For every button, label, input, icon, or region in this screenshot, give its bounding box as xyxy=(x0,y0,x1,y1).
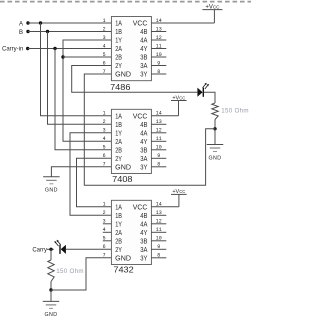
svg-text:11: 11 xyxy=(156,227,162,233)
wire U1 pin6 (SUM) to LED D1 xyxy=(72,66,198,93)
top dashed border xyxy=(0,1,251,3)
svg-text:4Y: 4Y xyxy=(140,46,147,53)
svg-text:10: 10 xyxy=(156,145,162,151)
svg-text:10: 10 xyxy=(156,236,162,242)
svg-text:4Y: 4Y xyxy=(140,139,147,146)
wire junction down to ground xyxy=(214,129,216,145)
svg-text:4A: 4A xyxy=(140,221,147,228)
svg-text:9: 9 xyxy=(157,60,160,66)
resistor R2 xyxy=(48,260,54,282)
svg-text:2B: 2B xyxy=(115,238,122,245)
svg-text:VCC: VCC xyxy=(133,113,148,120)
U1 right pin numbers 14-8 xyxy=(156,18,162,75)
junction A xyxy=(39,21,42,24)
svg-text:8: 8 xyxy=(157,253,160,259)
svg-text:3B: 3B xyxy=(140,147,147,154)
svg-text:12: 12 xyxy=(156,219,162,225)
junction R2/ground xyxy=(49,288,52,291)
U2 left pin numbers 1-7 xyxy=(103,111,106,168)
U3 right pin numbers 14-8 xyxy=(156,202,162,259)
wire A to U1 pin1 xyxy=(28,22,111,24)
wire B down to U2 pin2 xyxy=(48,32,112,125)
svg-text:GND: GND xyxy=(45,312,58,318)
svg-text:2: 2 xyxy=(103,210,106,216)
svg-text:B: B xyxy=(19,30,23,36)
wire U2 pin3 (1Y) to U3 pin2 xyxy=(70,133,111,216)
node B terminal xyxy=(26,30,29,33)
svg-text:14: 14 xyxy=(156,18,162,24)
U2 right pin stubs pins 13-8 xyxy=(151,124,166,167)
svg-text:7: 7 xyxy=(103,69,106,75)
junction Carry/resistor R2 xyxy=(49,248,52,251)
svg-text:5: 5 xyxy=(103,145,106,151)
wire Carry label to LED D2 xyxy=(47,248,54,250)
svg-text:7486: 7486 xyxy=(110,83,131,92)
svg-text:7432: 7432 xyxy=(113,266,134,275)
svg-text:3Y: 3Y xyxy=(140,255,147,262)
svg-text:1A: 1A xyxy=(115,113,122,120)
junction Carry-in xyxy=(53,47,56,50)
svg-text:3: 3 xyxy=(103,219,106,225)
svg-text:7: 7 xyxy=(103,162,106,168)
U3 right pin stubs pins 13-8 xyxy=(151,215,166,257)
svg-text:4B: 4B xyxy=(140,213,147,220)
svg-text:GND: GND xyxy=(45,188,58,194)
IC U3 7432 body xyxy=(111,200,151,264)
svg-text:Carry-in: Carry-in xyxy=(2,47,23,53)
U2 right pin numbers 14-8 xyxy=(156,111,162,168)
wire junction down to R2 xyxy=(50,249,52,260)
svg-text:GND: GND xyxy=(209,155,222,161)
svg-text:GND: GND xyxy=(115,72,131,79)
power +Vcc for U1 xyxy=(151,4,222,23)
svg-text:2B: 2B xyxy=(115,147,122,154)
svg-text:2Y: 2Y xyxy=(115,156,122,163)
svg-text:3A: 3A xyxy=(140,63,147,70)
svg-text:6: 6 xyxy=(103,153,106,159)
U1 left pin numbers 1-7 xyxy=(103,18,106,75)
svg-text:4: 4 xyxy=(103,136,106,142)
node A terminal xyxy=(26,21,29,24)
svg-text:8: 8 xyxy=(157,69,160,75)
svg-text:7: 7 xyxy=(103,253,106,259)
svg-text:12: 12 xyxy=(156,128,162,134)
svg-text:14: 14 xyxy=(156,202,162,208)
wire U2 pin7 GND to ground xyxy=(51,167,111,177)
svg-text:12: 12 xyxy=(156,35,162,41)
svg-text:1Y: 1Y xyxy=(115,38,122,45)
LED D2 (carry indicator) xyxy=(54,240,66,254)
ground symbol right xyxy=(207,145,224,162)
svg-text:4B: 4B xyxy=(140,122,147,129)
wire U2 pin6 (2Y) to U3 pin1 xyxy=(77,158,112,207)
svg-text:10: 10 xyxy=(156,52,162,58)
wire U1 pin3 (1Y) to U1 pin5 and U2 pin4 xyxy=(63,40,111,141)
svg-text:4: 4 xyxy=(103,227,106,233)
svg-text:11: 11 xyxy=(156,136,162,142)
svg-text:VCC: VCC xyxy=(133,204,148,211)
svg-text:3: 3 xyxy=(103,128,106,134)
svg-text:1Y: 1Y xyxy=(115,221,122,228)
svg-text:150 Ohm: 150 Ohm xyxy=(221,108,249,115)
junction 1Y to 2B xyxy=(61,55,64,58)
U3 pin name labels xyxy=(115,204,147,262)
svg-text:GND: GND xyxy=(115,164,131,171)
svg-text:5: 5 xyxy=(103,52,106,58)
svg-text:2A: 2A xyxy=(115,139,122,146)
wire junction down to ground xyxy=(50,290,52,301)
svg-text:4A: 4A xyxy=(140,38,147,45)
U3 left pin numbers 1-7 xyxy=(103,202,106,259)
IC U1 7486 body xyxy=(111,17,151,81)
svg-text:1: 1 xyxy=(103,18,106,24)
svg-text:6: 6 xyxy=(103,60,106,66)
svg-text:1B: 1B xyxy=(115,213,122,220)
svg-text:2A: 2A xyxy=(115,46,122,53)
svg-text:A: A xyxy=(19,21,23,27)
wire U1 pin7 GND to right ground net xyxy=(84,74,215,185)
svg-text:3Y: 3Y xyxy=(140,72,147,79)
svg-text:6: 6 xyxy=(103,244,106,250)
svg-text:4A: 4A xyxy=(140,130,147,137)
svg-text:13: 13 xyxy=(156,119,162,125)
U3 left pin stubs (unconnected) xyxy=(103,224,112,241)
svg-text:4Y: 4Y xyxy=(140,230,147,237)
wire R1 to ground junction xyxy=(214,120,216,129)
U1 right pin stubs pins 13-8 xyxy=(151,32,166,75)
svg-text:150 Ohm: 150 Ohm xyxy=(56,268,84,275)
svg-text:7408: 7408 xyxy=(112,175,133,184)
resistor R1 xyxy=(212,103,218,120)
wire R2 to bottom junction xyxy=(50,282,52,291)
wire A down to U2 pin1 xyxy=(41,23,112,116)
junction R1/ground xyxy=(213,127,216,130)
svg-text:1A: 1A xyxy=(115,21,122,28)
svg-text:13: 13 xyxy=(156,210,162,216)
svg-text:4: 4 xyxy=(103,43,106,49)
svg-text:3B: 3B xyxy=(140,238,147,245)
svg-text:2B: 2B xyxy=(115,55,122,62)
svg-text:3A: 3A xyxy=(140,247,147,254)
svg-text:5: 5 xyxy=(103,236,106,242)
svg-text:1B: 1B xyxy=(115,29,122,36)
wire junction to U1 pin5 xyxy=(63,56,111,58)
svg-text:1Y: 1Y xyxy=(115,130,122,137)
svg-text:1B: 1B xyxy=(115,122,122,129)
LED D1 (sum indicator) xyxy=(197,83,209,97)
wire Carry-in down to U2 pin5 xyxy=(55,49,111,150)
ground symbol bottom left xyxy=(43,301,60,317)
svg-text:13: 13 xyxy=(156,26,162,32)
ground symbol middle left xyxy=(43,177,60,194)
power +Vcc for U3 xyxy=(151,189,186,207)
U1 pin name labels xyxy=(115,21,147,79)
svg-text:Carry: Carry xyxy=(32,247,47,253)
node Carry-in terminal xyxy=(26,47,29,50)
svg-text:1: 1 xyxy=(103,202,106,208)
IC U2 7408 body xyxy=(111,109,151,173)
svg-text:3B: 3B xyxy=(140,55,147,62)
svg-text:1: 1 xyxy=(103,111,106,117)
svg-text:14: 14 xyxy=(156,111,162,117)
wire D1 cathode to resistor R1 xyxy=(204,92,215,103)
svg-text:9: 9 xyxy=(157,244,160,250)
svg-text:2Y: 2Y xyxy=(115,63,122,70)
svg-text:2: 2 xyxy=(103,119,106,125)
wire Carry-in to U1 pin4 xyxy=(28,48,112,50)
svg-text:11: 11 xyxy=(156,43,162,49)
svg-text:8: 8 xyxy=(157,162,160,168)
power +Vcc for U2 xyxy=(151,95,186,116)
svg-text:VCC: VCC xyxy=(133,21,148,28)
wire B to U1 pin2 xyxy=(28,31,111,33)
junction B xyxy=(46,30,49,33)
svg-text:4B: 4B xyxy=(140,29,147,36)
U2 pin name labels xyxy=(115,113,147,171)
wire D2 to U3 pin6 xyxy=(66,248,112,250)
svg-text:3Y: 3Y xyxy=(140,164,147,171)
svg-text:GND: GND xyxy=(115,255,131,262)
svg-text:3: 3 xyxy=(103,35,106,41)
svg-text:2A: 2A xyxy=(115,230,122,237)
svg-text:3A: 3A xyxy=(140,156,147,163)
svg-text:2Y: 2Y xyxy=(115,247,122,254)
svg-text:2: 2 xyxy=(103,26,106,32)
svg-text:1A: 1A xyxy=(115,204,122,211)
wire junction to U3 pin7 GND xyxy=(51,258,111,290)
svg-text:9: 9 xyxy=(157,153,160,159)
